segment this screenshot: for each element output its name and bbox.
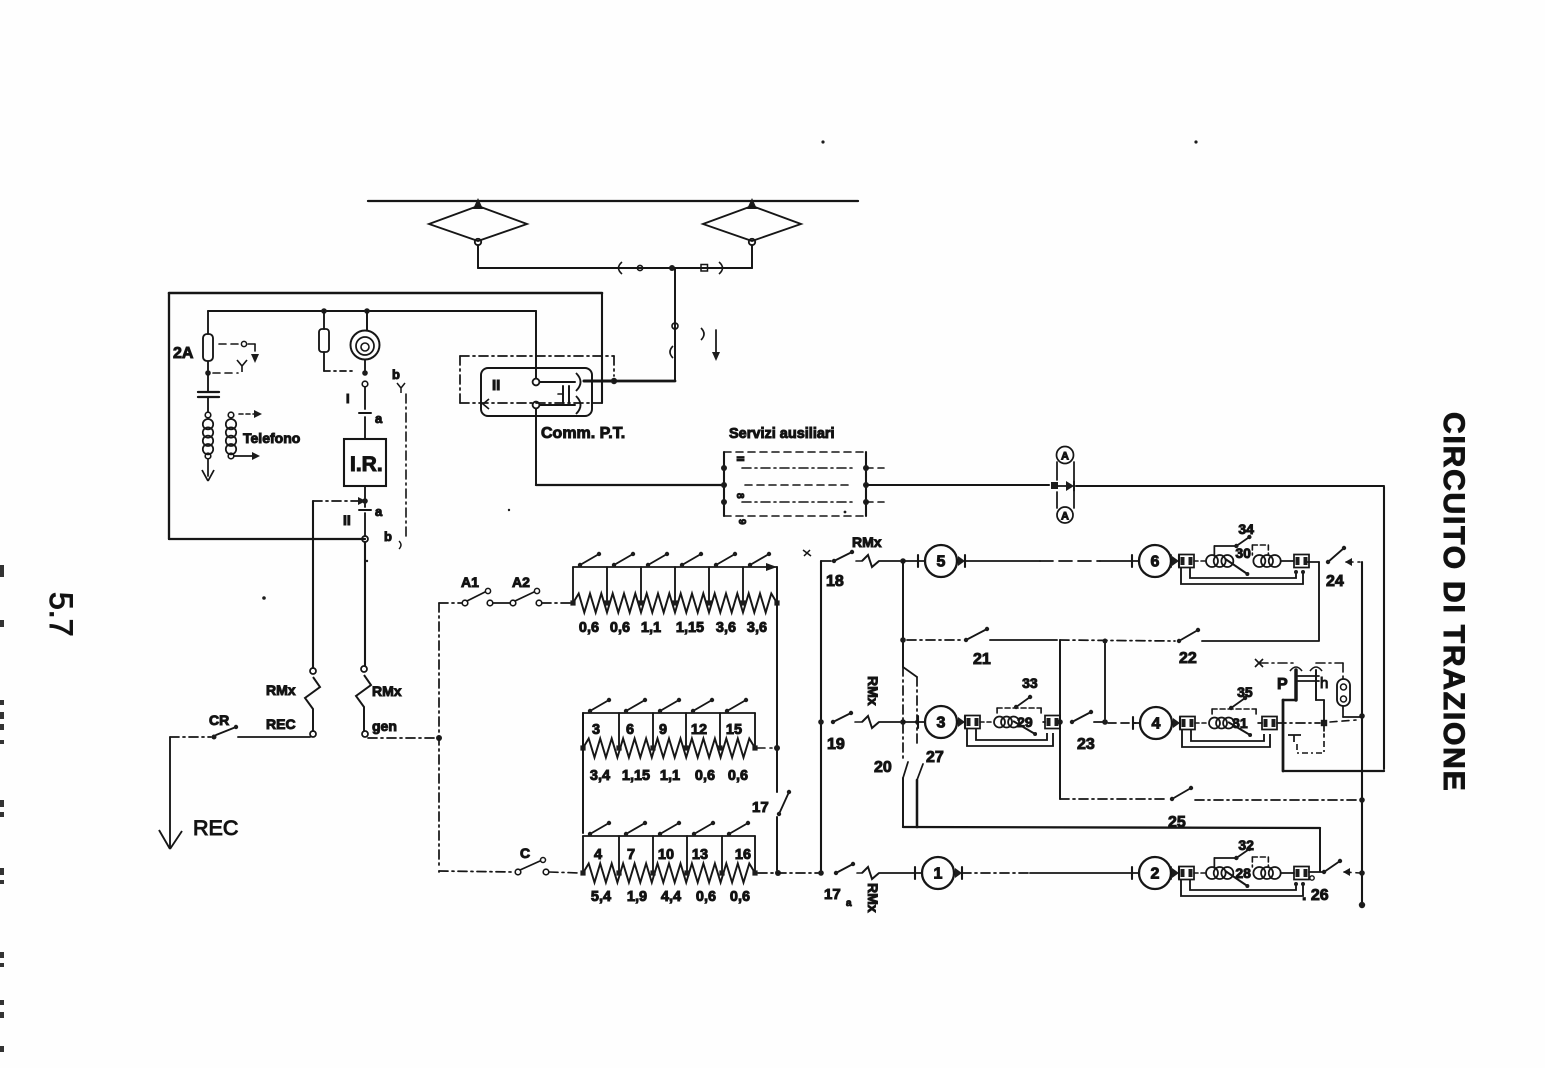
svg-text:0,6: 0,6 bbox=[730, 889, 750, 905]
svg-text:CR: CR bbox=[209, 712, 229, 728]
svg-text:Comm. P.T.: Comm. P.T. bbox=[541, 425, 625, 442]
svg-text:17: 17 bbox=[824, 886, 841, 903]
svg-text:II: II bbox=[492, 377, 500, 394]
svg-text:Servizi ausiliari: Servizi ausiliari bbox=[729, 426, 835, 442]
svg-text:0,6: 0,6 bbox=[579, 620, 599, 636]
svg-text:16: 16 bbox=[735, 847, 751, 863]
svg-text:5: 5 bbox=[937, 554, 946, 571]
svg-text:RMx: RMx bbox=[372, 683, 402, 699]
svg-text:b: b bbox=[384, 529, 392, 544]
svg-text:3,6: 3,6 bbox=[716, 620, 736, 636]
svg-text:P: P bbox=[1277, 676, 1288, 693]
svg-text:Telefono: Telefono bbox=[243, 430, 300, 446]
svg-text:20: 20 bbox=[874, 759, 892, 776]
svg-text:3,6: 3,6 bbox=[747, 620, 767, 636]
svg-text:1,1: 1,1 bbox=[641, 620, 661, 636]
svg-text:9: 9 bbox=[659, 722, 667, 738]
svg-text:7: 7 bbox=[627, 847, 635, 863]
svg-text:A: A bbox=[1061, 511, 1069, 523]
svg-text:1,1: 1,1 bbox=[660, 768, 680, 784]
svg-text:1,15: 1,15 bbox=[622, 768, 650, 784]
svg-text:5,4: 5,4 bbox=[591, 889, 611, 905]
svg-text:4,4: 4,4 bbox=[661, 889, 681, 905]
svg-text:CIRCUITO DI TRAZIONE: CIRCUITO DI TRAZIONE bbox=[1437, 412, 1470, 792]
svg-text:1,15: 1,15 bbox=[676, 620, 704, 636]
svg-text:32: 32 bbox=[1238, 837, 1254, 853]
svg-text:6: 6 bbox=[1151, 554, 1160, 571]
svg-text:31: 31 bbox=[1232, 715, 1248, 731]
svg-text:RMx: RMx bbox=[266, 682, 296, 698]
svg-text:2: 2 bbox=[1151, 866, 1160, 883]
svg-text:24: 24 bbox=[1326, 573, 1344, 590]
svg-text:22: 22 bbox=[1179, 650, 1197, 667]
svg-text:4: 4 bbox=[1152, 716, 1161, 733]
svg-text:a: a bbox=[375, 411, 383, 426]
svg-text:a: a bbox=[375, 504, 383, 519]
svg-text:4: 4 bbox=[594, 847, 602, 863]
svg-text:A2: A2 bbox=[512, 574, 530, 590]
svg-text:1,9: 1,9 bbox=[627, 889, 647, 905]
svg-text:II: II bbox=[343, 512, 351, 528]
svg-text:3: 3 bbox=[937, 715, 946, 732]
svg-text:21: 21 bbox=[973, 651, 991, 668]
svg-text:II: II bbox=[734, 456, 745, 462]
svg-text:27: 27 bbox=[926, 749, 944, 766]
svg-text:0,6: 0,6 bbox=[696, 889, 716, 905]
svg-text:5.7: 5.7 bbox=[43, 592, 79, 636]
svg-text:2A: 2A bbox=[173, 345, 194, 362]
svg-text:3,4: 3,4 bbox=[590, 768, 610, 784]
svg-text:1: 1 bbox=[934, 866, 943, 883]
svg-text:8: 8 bbox=[734, 493, 745, 499]
svg-text:REC: REC bbox=[266, 716, 296, 732]
svg-text:RMx: RMx bbox=[865, 676, 881, 706]
svg-text:A1: A1 bbox=[461, 574, 479, 590]
svg-text:C: C bbox=[520, 845, 530, 861]
svg-text:15: 15 bbox=[726, 722, 742, 738]
svg-text:A: A bbox=[1061, 451, 1069, 463]
svg-text:9: 9 bbox=[736, 519, 747, 525]
svg-text:29: 29 bbox=[1017, 714, 1033, 730]
svg-text:RMx: RMx bbox=[865, 883, 881, 913]
svg-text:0,6: 0,6 bbox=[728, 768, 748, 784]
svg-text:10: 10 bbox=[658, 847, 674, 863]
svg-text:6: 6 bbox=[626, 722, 634, 738]
svg-text:33: 33 bbox=[1022, 675, 1038, 691]
svg-text:28: 28 bbox=[1235, 865, 1251, 881]
svg-text:0,6: 0,6 bbox=[610, 620, 630, 636]
svg-text:30: 30 bbox=[1235, 545, 1251, 561]
svg-text:RMx: RMx bbox=[852, 534, 882, 550]
svg-text:35: 35 bbox=[1237, 684, 1253, 700]
svg-text:18: 18 bbox=[826, 573, 844, 590]
svg-text:REC: REC bbox=[193, 816, 238, 840]
svg-text:h: h bbox=[1320, 675, 1328, 692]
svg-text:34: 34 bbox=[1238, 521, 1254, 537]
svg-text:. 26: . 26 bbox=[1302, 887, 1329, 904]
svg-text:12: 12 bbox=[691, 722, 707, 738]
svg-text:19: 19 bbox=[827, 736, 845, 753]
svg-text:b: b bbox=[392, 367, 400, 382]
svg-text:0,6: 0,6 bbox=[695, 768, 715, 784]
svg-text:gen: gen bbox=[372, 718, 397, 734]
svg-text:13: 13 bbox=[692, 847, 708, 863]
svg-text:I.R.: I.R. bbox=[350, 453, 383, 476]
svg-text:17: 17 bbox=[752, 799, 769, 816]
svg-text:23: 23 bbox=[1077, 736, 1095, 753]
svg-text:I: I bbox=[346, 391, 350, 406]
svg-text:3: 3 bbox=[592, 722, 600, 738]
svg-text:a: a bbox=[846, 898, 852, 909]
